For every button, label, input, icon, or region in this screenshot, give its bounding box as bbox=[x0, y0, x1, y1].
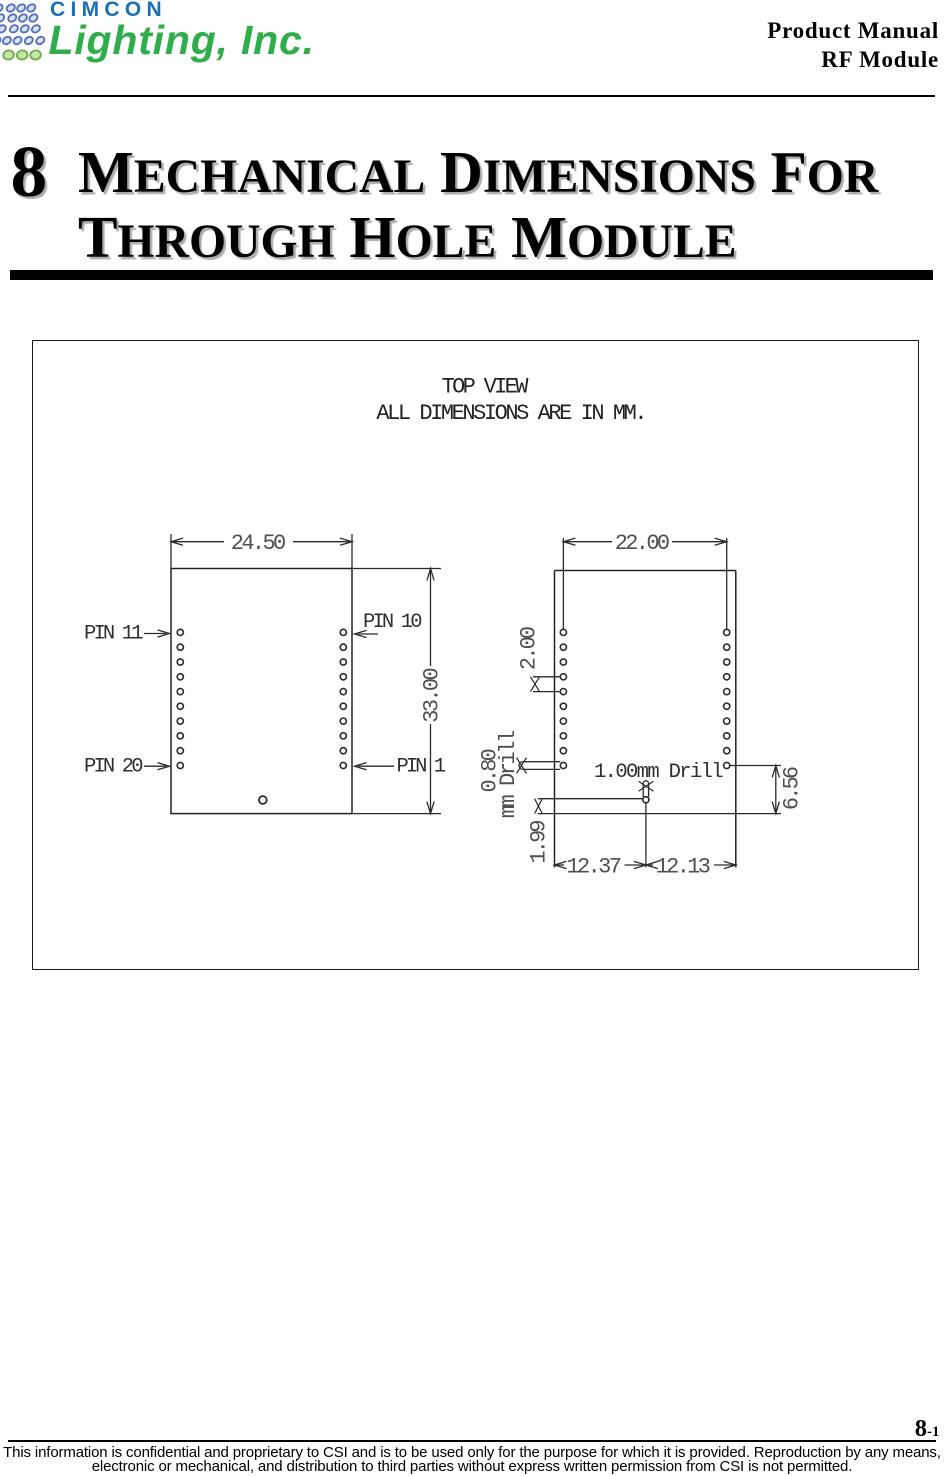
svg-text:PIN 11: PIN 11 bbox=[84, 623, 144, 646]
svg-text:PIN 20: PIN 20 bbox=[84, 756, 144, 779]
svg-text:6.56: 6.56 bbox=[780, 766, 805, 810]
svg-text:12.13: 12.13 bbox=[656, 854, 711, 879]
svg-text:24.50: 24.50 bbox=[231, 531, 286, 556]
svg-text:1.00mm Drill: 1.00mm Drill bbox=[594, 761, 724, 784]
svg-text:22.00: 22.00 bbox=[615, 531, 670, 556]
svg-text:ALL DIMENSIONS ARE IN MM.: ALL DIMENSIONS ARE IN MM. bbox=[376, 401, 647, 426]
svg-text:12.37: 12.37 bbox=[567, 854, 622, 879]
svg-text:33.00: 33.00 bbox=[420, 667, 445, 722]
svg-text:1.99: 1.99 bbox=[527, 819, 552, 863]
svg-text:2.00: 2.00 bbox=[517, 626, 542, 670]
svg-text:PIN 10: PIN 10 bbox=[363, 611, 423, 634]
svg-text:mm Drill: mm Drill bbox=[496, 730, 521, 819]
svg-text:PIN 1: PIN 1 bbox=[397, 756, 447, 779]
svg-text:TOP VIEW: TOP VIEW bbox=[442, 375, 530, 400]
